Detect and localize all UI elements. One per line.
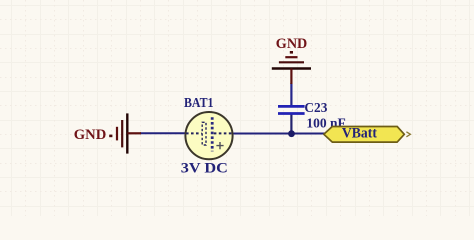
designator BAT1 [184,96,214,111]
net label GND (top) [276,36,308,52]
svg-text:3V DC: 3V DC [181,160,228,176]
svg-text:VBatt: VBatt [342,125,377,141]
battery BAT1 [185,112,232,159]
wire: capacitor to main wire [290,115,292,135]
wire: top ground down to capacitor [290,83,292,106]
wire: left ground to battery [140,132,186,134]
wire: battery to port VBatt [232,133,325,135]
junction dot [288,130,295,137]
svg-text:C23: C23 [304,101,327,116]
net label GND (left) [74,127,107,143]
capacitor C23 [278,106,305,113]
value 3V DC [181,160,228,176]
value 100 nF [306,117,345,132]
port VBatt [324,125,411,142]
power ground symbol (top) [272,51,311,84]
svg-text:GND: GND [74,127,107,143]
power ground symbol (left) [109,113,141,153]
designator C23 [304,101,327,116]
svg-text:GND: GND [276,36,308,52]
svg-text:BAT1: BAT1 [184,96,214,111]
